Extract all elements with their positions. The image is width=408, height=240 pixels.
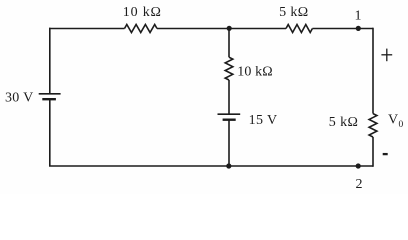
wire: right side lower [372,137,374,167]
wire: left side lower (from 30V battery) [49,99,51,166]
plus sign (polarity of Vo) [381,49,392,62]
svg-text:10 kΩ: 10 kΩ [123,5,162,20]
svg-text:V: V [388,112,398,127]
resistor R2 5 kOhm (top right) [286,25,312,33]
battery V1 30 V: long plate [39,93,61,95]
wire: right side upper [372,28,374,114]
svg-text:2: 2 [356,177,363,192]
node 2 dot [356,163,361,168]
svg-text:5 kΩ: 5 kΩ [329,115,359,130]
minus sign (polarity of Vo) [383,153,388,155]
wire: top-middle segment [157,28,286,30]
resistor R3 10 kOhm (middle vertical) [225,57,233,80]
junction dot: node at bottom of middle branch [226,163,231,168]
wire: top-right segment [312,28,373,30]
wire: left side upper (to 30V battery) [49,28,51,94]
svg-text:15 V: 15 V [249,113,278,128]
wire: middle branch lower [228,120,230,166]
wire: bottom segment [49,165,373,167]
wire: middle branch between resistor and battery [228,80,230,114]
battery V2 15 V: long plate [218,113,241,115]
node 1 dot [356,26,361,31]
resistor R1 10 kOhm (top left) [125,25,157,33]
junction dot: node at top of middle branch [227,26,232,31]
wire: middle branch upper [228,29,230,58]
svg-text:10 kΩ: 10 kΩ [237,65,272,80]
resistor R4 5 kOhm (right vertical) [369,114,377,137]
svg-text:0: 0 [399,120,404,130]
battery V2 15 V: short plate [223,118,236,120]
svg-text:1: 1 [355,9,362,24]
svg-text:30 V: 30 V [5,91,34,106]
battery V1 30 V: short plate [42,98,56,100]
svg-text:5 kΩ: 5 kΩ [279,5,309,20]
wire: top-left segment [49,28,125,30]
